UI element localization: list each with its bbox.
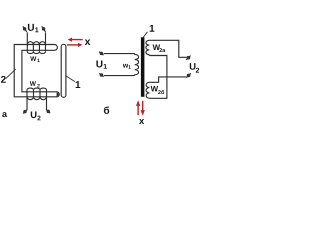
label U2 (figure a) — [31, 111, 37, 118]
terminal U1 left — [23, 26, 27, 32]
terminal U1 right — [42, 26, 46, 32]
label U1 (figure b) — [96, 61, 102, 68]
core bottom bar cap dark tip — [57, 92, 59, 96]
winding W2 loop returns through bar — [27, 90, 47, 97]
terminal U1 bottom (figure b) — [99, 73, 103, 77]
label W1 (figure b) — [123, 64, 128, 68]
label W1 (figure a) — [30, 56, 36, 60]
label x (figure b) — [139, 119, 144, 124]
label x (figure a) — [85, 39, 91, 45]
wire W2b top to terminal (crosses link, no junction) — [150, 77, 187, 82]
leader line to label 1 (core, figure b) — [143, 32, 147, 38]
core 1 (ferromagnetic plate, figure b) — [141, 37, 145, 97]
winding W2 loops (figure a, under bottom bar) — [27, 97, 47, 100]
winding W2a (figure b, 3 loops facing left) — [146, 40, 149, 54]
armature 1 (movable plate, figure a) — [61, 44, 66, 97]
leader line to label 2 (figure a) — [6, 69, 16, 78]
wire U2 right lead — [46, 97, 48, 110]
arrow x up (red, figure b) — [136, 100, 140, 115]
label 1 (core label, figure b) — [150, 25, 155, 32]
wire U1 left lead — [26, 32, 28, 44]
wire U1 bottom lead (figure b) — [104, 75, 134, 77]
label W2b (figure b) — [151, 86, 159, 92]
terminal U1 top (figure b) — [99, 52, 103, 56]
label 1 (armature label, figure a) — [76, 81, 81, 88]
terminal U2 left — [23, 110, 27, 114]
winding W1 loop returns through bar — [27, 45, 45, 52]
winding W2 loop tops inside window — [27, 88, 47, 90]
winding W1 (figure b, 4 loops facing right) — [134, 54, 138, 76]
arrow x down (red, figure b) — [141, 101, 145, 116]
arrow x left (red, figure a) — [68, 38, 83, 42]
label W2a (figure b) — [153, 45, 161, 51]
terminal U2 right — [46, 110, 50, 114]
winding W1 loop bottoms inside window — [27, 52, 45, 54]
label b (figure letter) — [104, 106, 109, 113]
label 2 (core leader label) — [1, 76, 6, 83]
terminal U2 top (figure b) — [186, 56, 190, 60]
label U1 (figure a) — [28, 24, 34, 31]
winding W2b (figure b, 3 loops facing left) — [146, 82, 149, 98]
wire U2 left lead — [26, 97, 28, 110]
wire W2a top to terminal — [149, 40, 186, 57]
leader line to label 1 (figure a) — [65, 76, 75, 82]
core 2 (C-shaped magnetic core, figure a) — [14, 45, 59, 97]
wire U1 top lead (figure b) — [104, 53, 135, 55]
terminal U2 bottom (figure b) — [186, 73, 190, 77]
label W2 (figure a) — [30, 81, 36, 85]
label a (figure letter) — [2, 112, 7, 117]
wire W2a bottom to W2b bottom (series link) — [149, 55, 167, 99]
label U2 (figure b) — [190, 63, 196, 70]
wire U1 right lead — [45, 32, 47, 44]
winding W1 loops (figure a, over top bar) — [27, 42, 45, 45]
arrow x right (red, figure a) — [67, 43, 82, 47]
